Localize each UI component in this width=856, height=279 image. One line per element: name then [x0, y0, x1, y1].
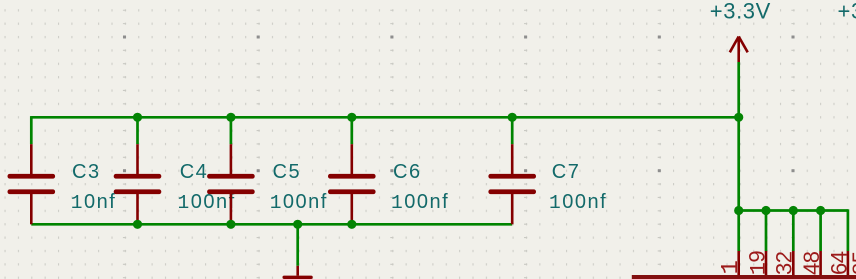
junction pin bus 48: [816, 206, 825, 215]
junction top C4: [133, 113, 142, 122]
junction pin bus 32: [789, 206, 798, 215]
svg-text:100nf: 100nf: [178, 191, 236, 214]
junction pin bus 19: [761, 206, 770, 215]
svg-text:48: 48: [799, 251, 824, 275]
wire ground drop: [296, 224, 299, 265]
ground pin: [296, 266, 299, 276]
wire C5 top drop: [230, 117, 233, 144]
svg-text:100nf: 100nf: [391, 191, 449, 214]
IC pin 1 lead: [737, 251, 740, 275]
svg-text:C6: C6: [393, 161, 422, 183]
capacitor C7: [488, 144, 536, 224]
junction top C7: [508, 113, 517, 122]
power +3.3V symbol: [730, 37, 748, 63]
junction bottom ground: [293, 220, 302, 229]
svg-text:C7: C7: [552, 161, 581, 183]
junction top C6: [347, 113, 356, 122]
capacitor C5: [207, 144, 255, 224]
IC pin 64 lead: [847, 251, 850, 275]
IC body top edge U?: [632, 275, 856, 279]
svg-text:100nf: 100nf: [549, 191, 607, 214]
svg-text:C4: C4: [180, 161, 209, 183]
svg-text:10nf: 10nf: [71, 191, 117, 214]
svg-text:85: 85: [848, 251, 856, 275]
svg-text:C3: C3: [72, 161, 101, 183]
IC pin 32 lead: [792, 251, 795, 275]
wire pin stub 1: [737, 211, 740, 252]
svg-text:19: 19: [744, 251, 771, 276]
wire pin stub 48: [819, 211, 822, 252]
wire pin stub 64: [847, 209, 850, 251]
IC pin 19 lead: [765, 251, 768, 275]
wire C3 top drop: [30, 116, 33, 144]
svg-text:32: 32: [772, 251, 797, 275]
ground symbol bar: [283, 276, 313, 279]
wire top bus: [31, 116, 738, 119]
wire C6 top drop: [350, 117, 353, 144]
svg-text:100nf: 100nf: [270, 191, 328, 214]
junction top C5: [226, 113, 235, 122]
IC pin 48 lead: [819, 251, 822, 275]
wire C7 top drop: [511, 117, 514, 144]
capacitor C3: [8, 144, 56, 224]
junction bottom C5: [226, 220, 235, 229]
wire bottom bus: [31, 223, 512, 226]
capacitor C6: [328, 144, 376, 224]
svg-text:+3.3V: +3.3V: [838, 0, 856, 24]
svg-text:+3.3V: +3.3V: [710, 0, 771, 24]
junction top power drop: [734, 113, 743, 122]
wire pin bus: [739, 209, 848, 212]
wire pin stub 19: [765, 211, 768, 252]
wire power drop: [737, 62, 740, 211]
junction bottom C4: [133, 220, 142, 229]
wire pin stub 32: [792, 211, 795, 252]
svg-text:C5: C5: [273, 161, 302, 183]
svg-text:1: 1: [718, 261, 745, 275]
wire C4 top drop: [136, 117, 139, 144]
junction bottom C6: [347, 220, 356, 229]
junction pin bus 1: [734, 206, 743, 215]
capacitor C4: [114, 144, 162, 224]
